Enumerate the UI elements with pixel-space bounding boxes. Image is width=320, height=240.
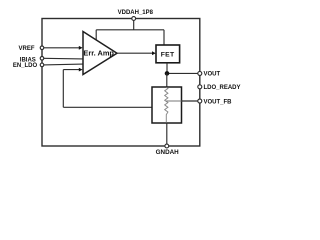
wire: output to VOUT pin (167, 72, 200, 74)
wire: FET drain down to output node (166, 63, 168, 74)
arrowhead VREF (79, 46, 83, 50)
wire: EN_LDO input (43, 63, 83, 66)
pin GNDAH (165, 144, 169, 148)
svg-text:LDO_READY: LDO_READY (204, 85, 241, 91)
arrowhead feedback (79, 68, 83, 72)
pin VREF (40, 46, 44, 50)
FET pass transistor (156, 45, 180, 63)
pin VOUT (198, 71, 202, 75)
wire: feedback into amp (63, 69, 79, 71)
op-amp error amplifier (83, 32, 117, 75)
wire: rail to error amp top (95, 30, 97, 40)
wire: supply rail (96, 29, 164, 31)
wire: feedback riser (62, 70, 64, 108)
wire: divider bottom to ground pin (166, 123, 168, 146)
wire: output node down to divider (166, 73, 168, 87)
svg-text:VREF: VREF (18, 46, 34, 52)
wire: divider tap to VOUT_FB (166, 100, 181, 102)
arrowhead into FET (152, 51, 156, 55)
wire: VDDAH pin drop (133, 19, 135, 30)
resistor divider box (152, 87, 182, 123)
resistor zigzag (165, 87, 168, 122)
svg-text:VDDAH_1P8: VDDAH_1P8 (118, 10, 154, 16)
wire: rail to FET top (163, 30, 165, 45)
wire: IBIAS input (43, 57, 83, 60)
svg-text:VOUT_FB: VOUT_FB (204, 99, 233, 105)
pin EN_LDO (40, 63, 44, 67)
node output junction (165, 71, 170, 76)
svg-text:EN_LDO: EN_LDO (13, 63, 38, 69)
svg-text:Err. Amp: Err. Amp (83, 49, 114, 58)
wire: VREF input (43, 47, 80, 49)
svg-text:FET: FET (161, 52, 175, 59)
pin VOUT_FB (198, 99, 202, 103)
pin LDO_READY (198, 85, 202, 89)
pin IBIAS (40, 57, 44, 61)
svg-text:GNDAH: GNDAH (156, 149, 180, 156)
outer LDO block boundary (42, 19, 200, 147)
wire: feedback run to divider (63, 106, 152, 108)
wire: amp output to FET (117, 52, 153, 54)
pin VDDAH_1P8 (132, 17, 136, 21)
svg-text:VOUT: VOUT (204, 72, 221, 78)
